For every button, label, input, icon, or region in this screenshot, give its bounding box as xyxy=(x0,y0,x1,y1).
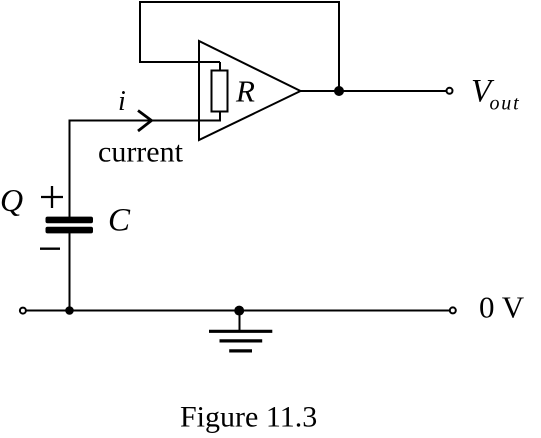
wire resistor top lead xyxy=(219,62,221,71)
wire bottom rail xyxy=(26,310,449,312)
resistor R xyxy=(212,71,228,112)
capacitor C top plate xyxy=(46,217,94,224)
wire feedback top horizontal xyxy=(140,1,339,3)
node capacitor-rail junction xyxy=(65,306,74,315)
svg-text:Q: Q xyxy=(0,182,23,218)
wire input horizontal xyxy=(70,120,222,122)
current arrow head xyxy=(138,111,152,132)
wire feedback to resistor top xyxy=(139,61,220,63)
svg-text:current: current xyxy=(98,136,184,169)
op-amp U1 xyxy=(199,41,301,140)
wire capacitor bottom lead xyxy=(69,233,71,311)
terminal Vout xyxy=(447,88,453,94)
terminal right 0V xyxy=(450,307,456,313)
wire output xyxy=(301,90,447,92)
wire resistor bottom lead xyxy=(219,112,221,121)
svg-text:C: C xyxy=(108,203,131,239)
capacitor C bottom plate xyxy=(46,227,94,234)
svg-text:i: i xyxy=(118,86,126,117)
svg-text:0 V: 0 V xyxy=(479,290,525,325)
svg-text:Figure 11.3: Figure 11.3 xyxy=(180,401,317,434)
wire feedback right vertical xyxy=(338,1,340,91)
label minus xyxy=(40,248,60,250)
svg-text:R: R xyxy=(235,74,255,109)
wire capacitor top lead xyxy=(69,120,71,218)
terminal left 0V xyxy=(20,308,26,314)
wire feedback left vertical xyxy=(139,1,141,62)
node output junction xyxy=(334,86,344,96)
node ground junction xyxy=(234,306,244,316)
wire ground stub xyxy=(239,311,241,332)
svg-text:out: out xyxy=(490,93,521,115)
ground xyxy=(209,331,272,351)
label plus xyxy=(41,186,63,208)
